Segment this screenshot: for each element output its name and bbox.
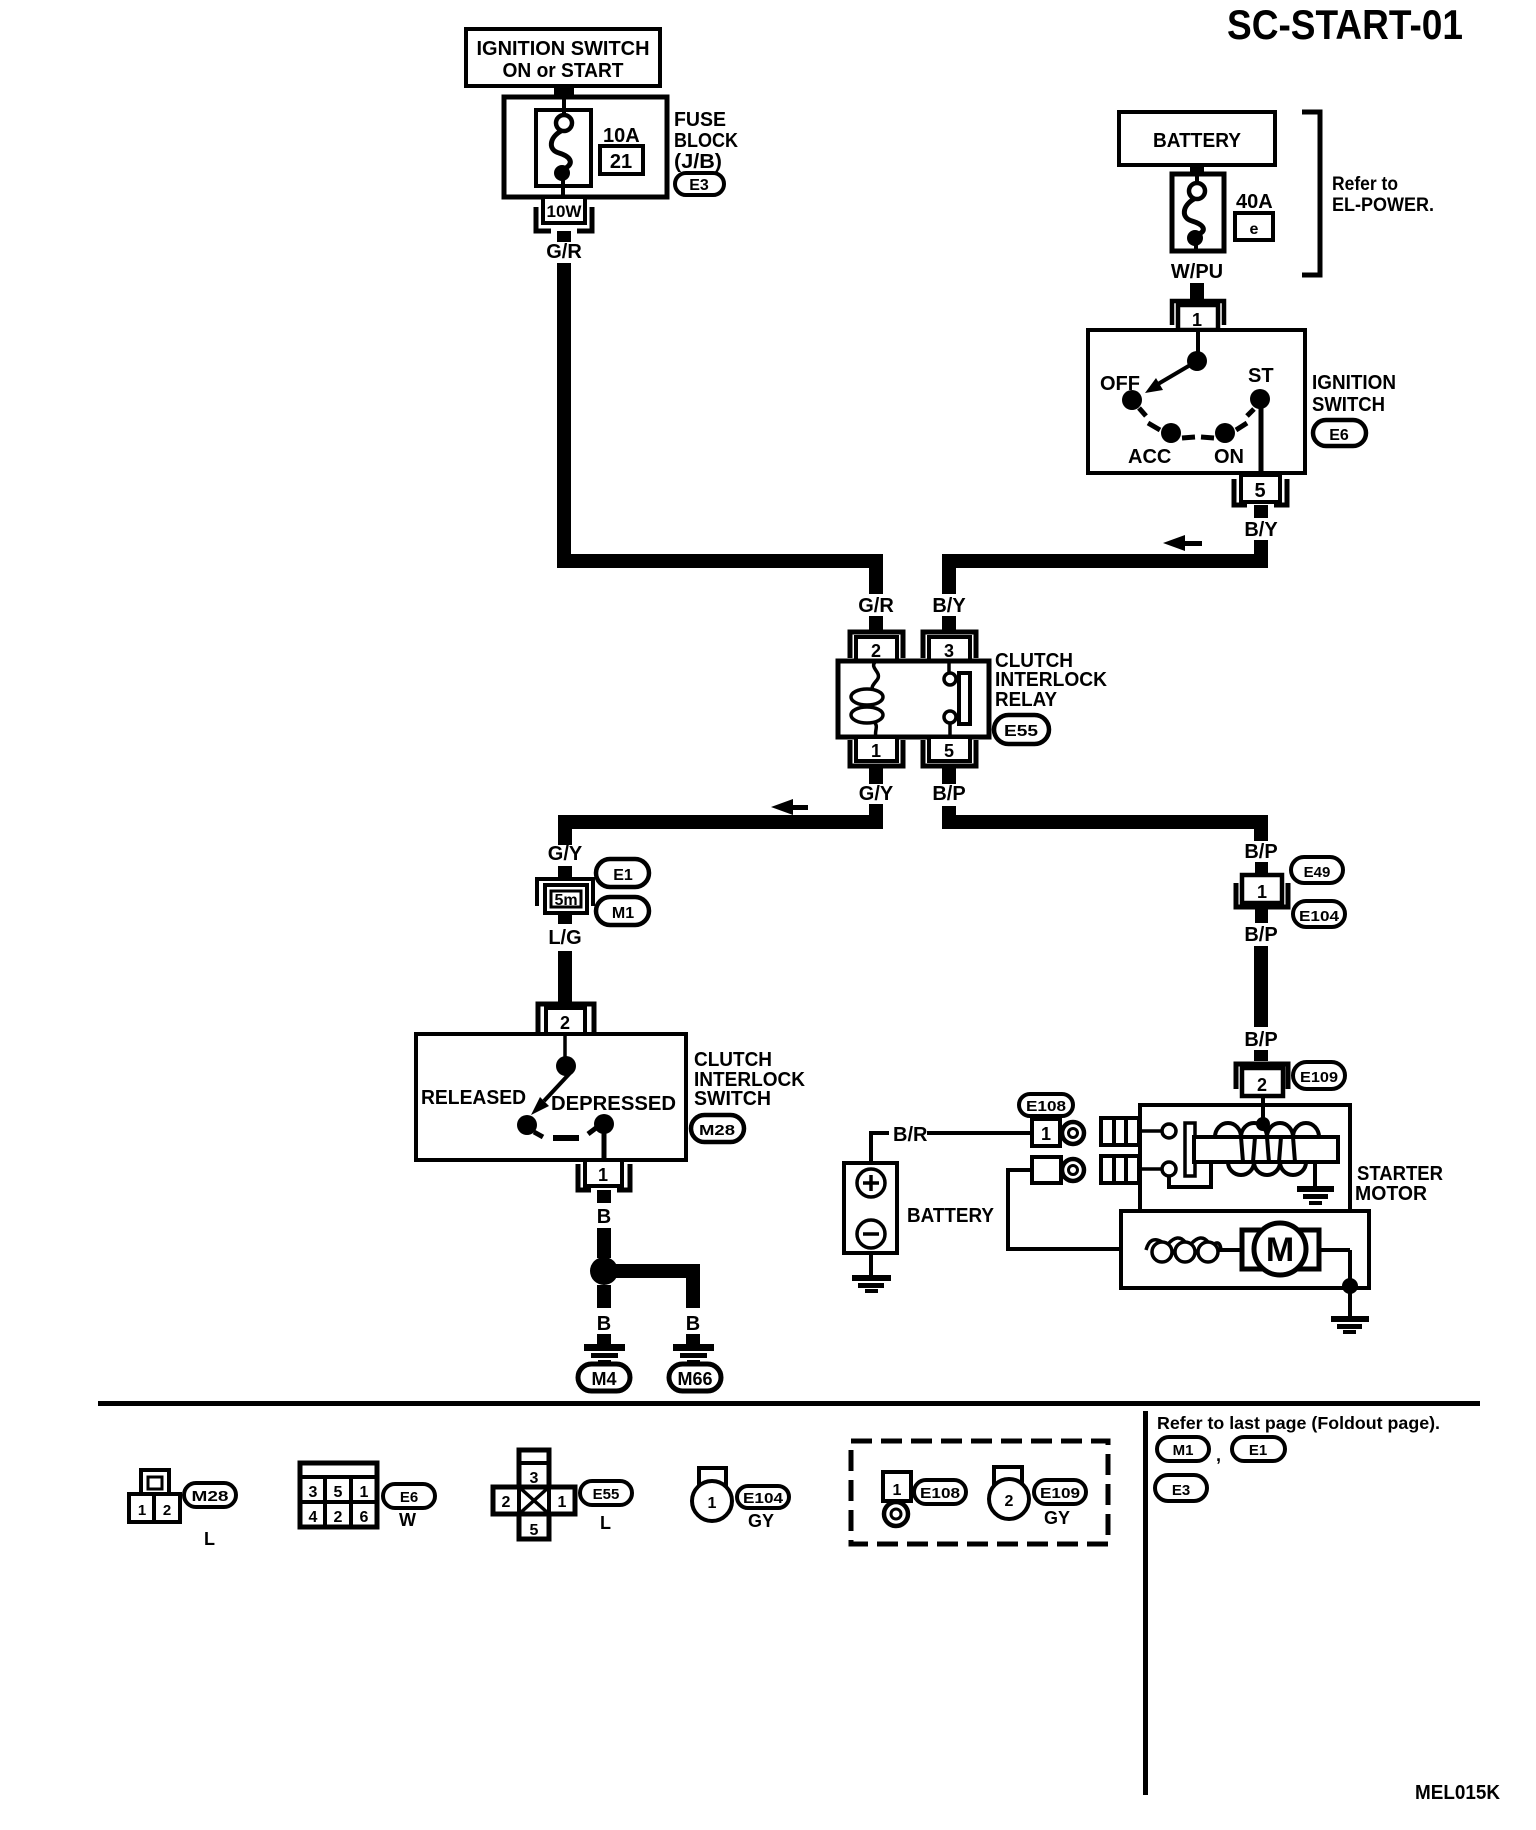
connector M28 oval bbox=[691, 1115, 744, 1142]
legend E108 oval bbox=[914, 1480, 966, 1504]
svg-text:E55: E55 bbox=[1004, 723, 1038, 740]
svg-text:M28: M28 bbox=[192, 1488, 229, 1505]
legend E108 connector face bbox=[883, 1472, 911, 1526]
svg-text:EL-POWER.: EL-POWER. bbox=[1332, 195, 1434, 216]
svg-text:SWITCH: SWITCH bbox=[1312, 394, 1385, 416]
svg-text:6: 6 bbox=[360, 1509, 369, 1526]
starter motor lower box bbox=[1121, 1211, 1369, 1288]
svg-text:DEPRESSED: DEPRESSED bbox=[551, 1093, 676, 1115]
svg-text:M1: M1 bbox=[1173, 1442, 1194, 1459]
bracket refer to EL-POWER bbox=[1302, 112, 1320, 275]
label CLUTCH INTERLOCK RELAY bbox=[995, 650, 1108, 711]
wire B/P vertical run bbox=[1254, 946, 1268, 1027]
legend dashed group box E108 E109 bbox=[851, 1441, 1108, 1544]
svg-text:M4: M4 bbox=[591, 1369, 616, 1389]
starter motor solenoid box bbox=[1140, 1105, 1350, 1211]
ground symbol M4 bbox=[584, 1344, 625, 1364]
svg-text:RELAY: RELAY bbox=[995, 689, 1058, 711]
svg-text:W: W bbox=[399, 1510, 416, 1530]
wire B segment bbox=[597, 1228, 611, 1258]
switch arm arrow toward released bbox=[531, 1072, 571, 1115]
wire ST to pin 5 bbox=[1259, 405, 1264, 473]
svg-text:M: M bbox=[1266, 1231, 1294, 1269]
svg-text:ON: ON bbox=[1214, 446, 1244, 468]
connector E108 pin 1 box bbox=[1032, 1119, 1060, 1146]
svg-text:B: B bbox=[597, 1206, 611, 1228]
ground connector M66 oval bbox=[669, 1364, 721, 1391]
connector E49 oval bbox=[1291, 857, 1343, 883]
svg-text:1: 1 bbox=[871, 741, 881, 761]
wire G/R horizontal bus to relay pin 2 bbox=[557, 554, 883, 568]
svg-text:B/P: B/P bbox=[1244, 924, 1277, 946]
svg-text:10A: 10A bbox=[603, 125, 640, 147]
svg-text:G/R: G/R bbox=[546, 241, 582, 263]
wire stub into pin 2 bbox=[869, 616, 883, 632]
svg-text:21: 21 bbox=[610, 151, 632, 173]
svg-text:MOTOR: MOTOR bbox=[1355, 1183, 1428, 1205]
contact ST bbox=[1247, 389, 1270, 416]
contact DEPRESSED bbox=[594, 1114, 614, 1134]
wire B/Y horizontal bus to relay pin 3 bbox=[942, 554, 1268, 568]
wire stub below pin 5 bbox=[1254, 505, 1268, 518]
svg-text:FUSE: FUSE bbox=[674, 109, 726, 131]
legend E104 oval bbox=[737, 1486, 789, 1508]
solenoid plunger bbox=[1185, 1123, 1195, 1176]
svg-text:ST: ST bbox=[1248, 365, 1274, 387]
svg-text:B/P: B/P bbox=[932, 783, 965, 805]
svg-text:B/R: B/R bbox=[893, 1124, 928, 1146]
fuse number 21 bbox=[600, 146, 643, 174]
svg-text:2: 2 bbox=[163, 1502, 171, 1519]
svg-text:(J/B): (J/B) bbox=[674, 151, 722, 173]
junction node B bbox=[590, 1257, 618, 1285]
wire B/P horizontal bus bbox=[942, 815, 1268, 829]
legend E104 connector face bbox=[692, 1468, 732, 1521]
wire stub below relay pin 5 bbox=[942, 766, 956, 784]
svg-text:3: 3 bbox=[309, 1484, 318, 1501]
svg-text:2: 2 bbox=[871, 641, 881, 661]
wire G/Y stub to bus bbox=[869, 804, 883, 815]
svg-text:CLUTCH: CLUTCH bbox=[694, 1049, 772, 1071]
relay pin 1 connector bbox=[850, 737, 903, 766]
svg-text:E109: E109 bbox=[1300, 1069, 1338, 1086]
wire stub into 5m connector bbox=[558, 866, 572, 881]
rotary path tick marks bbox=[1148, 423, 1247, 438]
connector E1 oval bbox=[596, 859, 649, 887]
solenoid terminal contact upper bbox=[1139, 1124, 1176, 1138]
clutch interlock switch box M28 bbox=[416, 1034, 686, 1160]
svg-text:5: 5 bbox=[530, 1522, 539, 1539]
relay pin 2 connector bbox=[850, 632, 903, 661]
connector E55 oval bbox=[994, 715, 1049, 744]
wire stub below relay pin 1 bbox=[869, 766, 883, 784]
ground symbol starter motor bbox=[1331, 1288, 1369, 1334]
connector E109 oval bbox=[1293, 1062, 1345, 1089]
svg-text:ON or START: ON or START bbox=[503, 60, 624, 82]
motor M armature symbol bbox=[1242, 1223, 1319, 1275]
svg-text:E104: E104 bbox=[1299, 908, 1340, 925]
svg-text:3: 3 bbox=[530, 1470, 539, 1487]
svg-text:ACC: ACC bbox=[1128, 446, 1171, 468]
connector E6 oval bbox=[1313, 420, 1366, 446]
svg-text:Refer to last page (Foldout pa: Refer to last page (Foldout page). bbox=[1157, 1413, 1440, 1433]
svg-text:Refer to: Refer to bbox=[1332, 174, 1398, 195]
svg-text:E108: E108 bbox=[920, 1485, 960, 1502]
power source box IGNITION SWITCH ON or START bbox=[466, 29, 660, 86]
svg-text:2: 2 bbox=[1257, 1075, 1267, 1095]
note Refer to EL-POWER bbox=[1332, 174, 1434, 216]
svg-text:1: 1 bbox=[360, 1484, 369, 1501]
wire E109 into solenoid coil bbox=[1261, 1096, 1265, 1122]
label STARTER MOTOR bbox=[1355, 1163, 1444, 1205]
legend E109 oval bbox=[1034, 1480, 1086, 1504]
wire L/G vertical bbox=[558, 951, 572, 1002]
ignition switch box E6 bbox=[1088, 330, 1305, 473]
svg-text:E55: E55 bbox=[593, 1486, 620, 1503]
wire drop to relay pin 3 bbox=[942, 568, 956, 594]
contact ON bbox=[1215, 423, 1235, 443]
tick before depressed contact bbox=[588, 1128, 596, 1134]
wire stub into E109 connector bbox=[1254, 1050, 1268, 1061]
fusible link 40A e bbox=[1172, 174, 1224, 251]
legend M28 connector face bbox=[129, 1470, 180, 1522]
svg-text:1: 1 bbox=[1192, 310, 1202, 330]
wire stub below E49 connector bbox=[1255, 909, 1268, 923]
connector pin 1 clutch interlock switch bbox=[578, 1160, 630, 1190]
wire B/P stub below relay label bbox=[942, 806, 956, 815]
legend M28 oval bbox=[184, 1483, 236, 1507]
wire depressed contact to pin 1 bbox=[602, 1130, 607, 1160]
svg-text:BATTERY: BATTERY bbox=[907, 1205, 995, 1227]
connector M1 oval bbox=[596, 897, 649, 925]
svg-text:M1: M1 bbox=[612, 905, 634, 922]
clutch interlock relay body E55 bbox=[838, 661, 989, 737]
svg-text:SC-START-01: SC-START-01 bbox=[1227, 1, 1463, 48]
svg-text:RELEASED: RELEASED bbox=[421, 1087, 526, 1109]
svg-text:SWITCH: SWITCH bbox=[694, 1088, 771, 1110]
svg-text:B/Y: B/Y bbox=[932, 595, 966, 617]
svg-text:W/PU: W/PU bbox=[1171, 261, 1223, 283]
relay pin 3 connector bbox=[923, 632, 976, 661]
svg-text:,: , bbox=[1216, 1445, 1221, 1465]
svg-text:OFF: OFF bbox=[1100, 373, 1140, 395]
wire stub battery to fuse 40A bbox=[1190, 165, 1204, 175]
svg-text:STARTER: STARTER bbox=[1357, 1163, 1444, 1185]
svg-text:G/R: G/R bbox=[858, 595, 894, 617]
wire stub into E49 connector bbox=[1255, 862, 1268, 876]
ring terminal E108 bbox=[1062, 1122, 1084, 1144]
connector box to starter bbox=[1032, 1157, 1061, 1183]
contact OFF bbox=[1122, 390, 1146, 416]
connector pin 2 E109 bbox=[1236, 1064, 1288, 1096]
wire stub W/PU bbox=[1190, 283, 1204, 300]
svg-text:2: 2 bbox=[1005, 1493, 1014, 1510]
wire lower connector to motor box bbox=[1008, 1170, 1121, 1249]
connector E3 oval bbox=[675, 173, 724, 195]
svg-text:E3: E3 bbox=[1172, 1482, 1190, 1499]
motor field coil bbox=[1146, 1238, 1221, 1262]
svg-text:40A: 40A bbox=[1236, 191, 1273, 213]
wire stub to ground M66 bbox=[686, 1334, 700, 1345]
legend E6 oval bbox=[383, 1484, 435, 1508]
svg-text:E1: E1 bbox=[613, 867, 633, 884]
dash mark between contacts bbox=[553, 1135, 579, 1141]
svg-text:BLOCK: BLOCK bbox=[674, 130, 738, 152]
wire B continues to M4 ground bbox=[597, 1285, 611, 1308]
arrow direction marker on B/Y bus bbox=[1163, 535, 1202, 551]
switch arm arrow to OFF bbox=[1145, 364, 1192, 393]
svg-text:E108: E108 bbox=[1026, 1098, 1066, 1115]
svg-text:E109: E109 bbox=[1040, 1485, 1080, 1502]
svg-text:M66: M66 bbox=[677, 1369, 712, 1389]
svg-text:L: L bbox=[204, 1529, 215, 1549]
switch common contact bbox=[556, 1056, 576, 1076]
svg-text:E49: E49 bbox=[1304, 864, 1331, 881]
ground connector M4 oval bbox=[578, 1364, 630, 1391]
svg-text:E6: E6 bbox=[400, 1489, 418, 1506]
wire stub below 5m connector bbox=[558, 913, 572, 924]
svg-text:G/Y: G/Y bbox=[859, 783, 894, 805]
wire coil to motor bbox=[1218, 1248, 1244, 1252]
label FUSE BLOCK (J/B) bbox=[674, 109, 738, 173]
wire branch drop bbox=[686, 1278, 700, 1308]
svg-text:1: 1 bbox=[708, 1495, 717, 1512]
wire pin1 to common contact bbox=[1196, 330, 1200, 354]
connector E104 oval bbox=[1293, 901, 1345, 927]
svg-text:5: 5 bbox=[1254, 480, 1265, 502]
wire B/P drop on right bbox=[1254, 829, 1268, 841]
connector E108 oval bbox=[1019, 1094, 1073, 1116]
foldout E1 oval bbox=[1232, 1437, 1285, 1461]
svg-text:1: 1 bbox=[558, 1494, 567, 1511]
label CLUTCH INTERLOCK SWITCH bbox=[694, 1049, 806, 1110]
contact ACC bbox=[1161, 423, 1181, 443]
vertical divider line bbox=[1143, 1411, 1148, 1795]
battery positive terminal bbox=[857, 1169, 885, 1197]
connector pin 5 ignition switch bbox=[1234, 475, 1287, 505]
svg-text:B/P: B/P bbox=[1244, 1029, 1277, 1051]
arrow direction marker on G/Y bus bbox=[771, 799, 808, 815]
svg-text:2: 2 bbox=[502, 1494, 511, 1511]
label IGNITION SWITCH bbox=[1312, 372, 1396, 416]
wire pin2 to common contact bbox=[563, 1034, 567, 1058]
svg-text:GY: GY bbox=[748, 1511, 774, 1531]
svg-text:1: 1 bbox=[1041, 1124, 1051, 1144]
wire stub to ground M4 bbox=[597, 1334, 611, 1345]
relay pin 5 connector bbox=[923, 737, 976, 766]
wire lower contact to shaft bbox=[1169, 1162, 1211, 1187]
separator line bbox=[98, 1401, 1480, 1406]
node solenoid coil tap bbox=[1256, 1117, 1270, 1131]
svg-text:MEL015K: MEL015K bbox=[1415, 1782, 1501, 1804]
svg-text:5m: 5m bbox=[554, 892, 577, 909]
svg-text:10W: 10W bbox=[547, 202, 583, 221]
legend E55 oval bbox=[580, 1481, 632, 1505]
svg-text:B: B bbox=[597, 1313, 611, 1335]
svg-text:E1: E1 bbox=[1249, 1442, 1267, 1459]
connector pin 1 ignition switch bbox=[1172, 301, 1224, 330]
svg-text:IGNITION SWITCH: IGNITION SWITCH bbox=[477, 38, 650, 60]
svg-text:M28: M28 bbox=[699, 1122, 735, 1139]
svg-text:5: 5 bbox=[944, 741, 954, 761]
svg-text:4: 4 bbox=[309, 1509, 318, 1526]
svg-text:E6: E6 bbox=[1329, 427, 1349, 444]
svg-text:3: 3 bbox=[944, 641, 954, 661]
wire G/Y horizontal bus bbox=[558, 815, 883, 829]
wire motor to ground node bbox=[1319, 1250, 1350, 1286]
svg-text:L/G: L/G bbox=[548, 927, 581, 949]
wire branch to M66 ground bbox=[604, 1264, 700, 1278]
wire G/Y drop on left bbox=[558, 829, 572, 845]
wire G/R vertical run bbox=[557, 263, 571, 554]
connector pin 2 clutch interlock switch bbox=[538, 1004, 594, 1034]
legend E109 connector face bbox=[989, 1467, 1029, 1519]
ground symbol inside solenoid bbox=[1297, 1162, 1334, 1205]
battery negative terminal bbox=[857, 1220, 885, 1248]
svg-text:GY: GY bbox=[1044, 1508, 1070, 1528]
battery box top right bbox=[1119, 112, 1275, 165]
battery lower box bbox=[844, 1163, 897, 1253]
wire battery B/R to E108 bbox=[871, 1131, 1032, 1163]
svg-text:IGNITION: IGNITION bbox=[1312, 372, 1396, 394]
svg-text:L: L bbox=[600, 1513, 611, 1533]
fuse 10A element symbol bbox=[551, 97, 572, 197]
ground symbol battery bbox=[852, 1253, 891, 1293]
wire stub below 10W bbox=[557, 231, 571, 242]
svg-text:1: 1 bbox=[138, 1502, 146, 1519]
terminal block upper bbox=[1101, 1118, 1139, 1145]
svg-text:B/Y: B/Y bbox=[1244, 519, 1278, 541]
svg-text:INTERLOCK: INTERLOCK bbox=[995, 669, 1108, 691]
svg-text:E104: E104 bbox=[743, 1490, 784, 1507]
svg-text:e: e bbox=[1250, 221, 1259, 238]
wire stub ignition switch feed to fuse block bbox=[554, 84, 574, 98]
wire stub into pin 3 bbox=[942, 616, 956, 632]
contact RELEASED bbox=[517, 1115, 543, 1137]
solenoid terminal contact lower bbox=[1139, 1162, 1176, 1176]
svg-text:2: 2 bbox=[560, 1013, 570, 1033]
svg-text:G/Y: G/Y bbox=[548, 843, 583, 865]
legend E55 connector face bbox=[493, 1450, 575, 1539]
legend E6 connector face bbox=[300, 1463, 377, 1527]
wire drop to relay pin 2 bbox=[869, 568, 883, 594]
svg-text:1: 1 bbox=[598, 1165, 608, 1185]
connector pin 1 E49/E104 bbox=[1236, 875, 1288, 907]
svg-text:BATTERY: BATTERY bbox=[1153, 130, 1242, 152]
connector 5m through E1/M1 bbox=[537, 879, 593, 913]
junction node at motor box bbox=[1342, 1278, 1358, 1294]
relay coil bbox=[851, 661, 883, 737]
wire B/Y stub bbox=[1254, 540, 1268, 554]
terminal block lower bbox=[1101, 1156, 1139, 1183]
wire stub below pin 1 bbox=[597, 1190, 611, 1203]
svg-text:1: 1 bbox=[1257, 882, 1267, 902]
foldout E3 oval bbox=[1155, 1475, 1207, 1501]
fusible link letter e box bbox=[1235, 213, 1273, 240]
connector 10W through J/B bbox=[536, 197, 592, 231]
svg-text:2: 2 bbox=[334, 1509, 343, 1526]
ring terminal lower bbox=[1062, 1159, 1084, 1181]
svg-text:B: B bbox=[686, 1313, 700, 1335]
svg-text:1: 1 bbox=[893, 1482, 902, 1499]
svg-text:5: 5 bbox=[334, 1484, 343, 1501]
svg-text:B/P: B/P bbox=[1244, 841, 1277, 863]
ignition switch common contact bbox=[1187, 351, 1207, 371]
fuse block (J/B) E3 bbox=[504, 97, 667, 197]
solenoid coil windings bbox=[1215, 1123, 1319, 1175]
foldout M1 oval bbox=[1157, 1437, 1209, 1461]
svg-text:E3: E3 bbox=[689, 177, 709, 194]
relay contact bbox=[944, 661, 970, 737]
solenoid armature shaft bbox=[1194, 1137, 1338, 1162]
ground symbol M66 bbox=[673, 1344, 714, 1364]
